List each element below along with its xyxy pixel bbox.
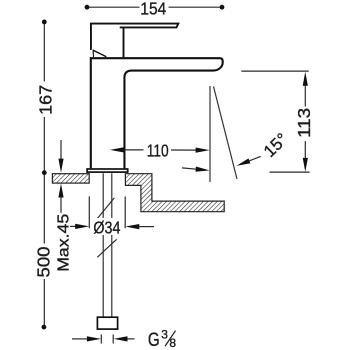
dim G3/8 left arrow (72, 338, 88, 340)
15 deg slanted line (214, 87, 238, 180)
dim 113 extension bottom (270, 171, 310, 173)
dim Max.45 upper leader (60, 140, 62, 160)
svg-text:167: 167 (35, 85, 55, 115)
dim 110 left arrow (110, 147, 124, 152)
svg-text:8: 8 (169, 336, 176, 350)
dim dia34 left arrow (70, 225, 76, 227)
lever handle (91, 24, 178, 50)
pipe break diagonal upper (98, 198, 115, 218)
dim 167 line (43, 24, 45, 82)
handle notch vertical (92, 50, 94, 57)
dim G3/8 ticks (100, 335, 102, 344)
dim G3/8 right arrow (114, 336, 128, 341)
dim dia34 extension lines (88, 196, 90, 228)
dim dia34 text (93, 218, 122, 235)
handle notch diagonal (93, 50, 107, 57)
supply pipe (102, 173, 104, 317)
dim 154 line (87, 6, 140, 8)
faucet body and spout outline (91, 58, 223, 168)
dim 167 dots (42, 20, 47, 25)
handle column right edge (123, 27, 125, 57)
pipe break diagonal lower (97, 239, 116, 257)
15 deg vertical reference line (209, 86, 211, 182)
dim 500 dot (42, 325, 47, 330)
dim dia34 right arrow (125, 224, 139, 229)
svg-text:Max.45: Max.45 (56, 214, 73, 272)
svg-text:154: 154 (140, 0, 166, 18)
svg-text:113: 113 (294, 108, 314, 138)
svg-text:3: 3 (161, 327, 168, 341)
svg-text:Ø34: Ø34 (93, 218, 120, 238)
connector box G3/8 (97, 317, 117, 329)
dim 500 line (43, 175, 45, 244)
svg-text:G: G (148, 330, 160, 350)
base flange (87, 169, 128, 172)
svg-text:110: 110 (147, 140, 169, 160)
dim 154 dots (85, 5, 90, 10)
dim 113 arrows (303, 72, 308, 86)
dim 110 line (124, 149, 144, 151)
countertop right stepped section (125, 174, 224, 212)
15 deg leader left arrow (182, 168, 197, 169)
dim 110 right arrow (196, 148, 210, 153)
dim Max.45 lower leader (58, 184, 63, 198)
dim 113 line (304, 85, 306, 107)
svg-text:500: 500 (34, 246, 54, 277)
countertop left section (52, 174, 89, 183)
15 deg leader right arrow (249, 156, 260, 160)
dim 113 extension top (241, 70, 308, 72)
